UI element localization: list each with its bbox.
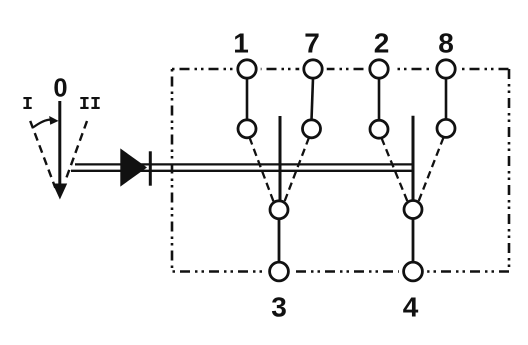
terminal 7 circle — [304, 60, 322, 78]
movable contact dashed line 8-4 — [419, 138, 444, 202]
stem terminal 8 to fixed contact — [445, 78, 448, 119]
stem terminal 2 to fixed contact — [378, 78, 381, 120]
svg-text:7: 7 — [304, 27, 320, 58]
fixed contact circle under 8 — [437, 119, 455, 137]
actuator triangle — [120, 148, 147, 186]
stem common right to terminal 4 — [412, 219, 415, 262]
actuator tick — [149, 151, 152, 185]
svg-text:3: 3 — [271, 292, 287, 323]
terminal 8 circle — [437, 60, 455, 78]
fixed contact circle under 2 — [370, 120, 388, 138]
position I dashed line — [30, 121, 55, 188]
linkage double line lower wire — [71, 170, 413, 172]
fixed contact circle under 7 — [303, 120, 321, 138]
terminal 1 circle — [238, 60, 256, 78]
stem terminal 7 to fixed contact — [312, 78, 314, 120]
svg-text:2: 2 — [374, 27, 390, 58]
linkage double line upper wire — [75, 163, 413, 165]
svg-text:4: 4 — [403, 292, 419, 323]
stem terminal 1 to fixed contact — [246, 78, 249, 120]
common contact circle left — [270, 201, 288, 219]
terminal 3 circle — [270, 262, 289, 281]
common contact circle right — [404, 201, 422, 219]
drive bar left — [279, 116, 282, 200]
movable contact dashed line 1-3 — [250, 138, 274, 202]
movable contact dashed line 7-3 — [285, 138, 310, 202]
svg-text:0: 0 — [53, 75, 67, 103]
svg-text:8: 8 — [438, 27, 454, 58]
position II dashed line — [67, 121, 88, 178]
fixed contact circle under 1 — [238, 120, 256, 138]
arc arrow (I toward 0) — [33, 120, 51, 128]
drive bar right — [412, 116, 415, 201]
white halos for terminals on border — [233, 55, 261, 83]
terminal 4 circle — [404, 262, 423, 281]
svg-text:1: 1 — [233, 27, 249, 58]
terminal 2 circle — [370, 60, 388, 78]
enclosure dash-dot box — [172, 69, 509, 272]
movable contact dashed line 2-4 — [382, 138, 408, 202]
svg-text:II: II — [79, 94, 101, 115]
lever (solid, arrow down) — [58, 101, 61, 192]
stem common left to terminal 3 — [278, 219, 281, 262]
svg-text:I: I — [22, 94, 33, 115]
